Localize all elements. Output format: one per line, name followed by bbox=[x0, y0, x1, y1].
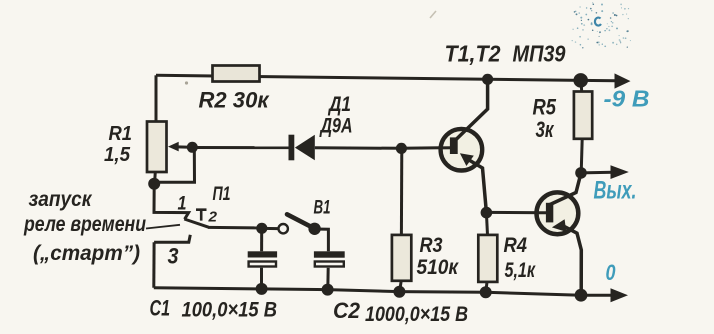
node R1 bottom bbox=[148, 178, 160, 190]
switch P1 contact 3 wire bbox=[154, 235, 190, 242]
svg-text:2: 2 bbox=[207, 209, 217, 226]
switch B1 pivot node bbox=[308, 223, 320, 235]
svg-text:Вых.: Вых. bbox=[594, 177, 637, 205]
resistor R1 (variable) bbox=[147, 122, 167, 173]
svg-text:3: 3 bbox=[168, 243, 179, 268]
svg-text:R3: R3 bbox=[420, 234, 443, 257]
wire T2 base bbox=[486, 211, 546, 214]
svg-text:реле времени: реле времени bbox=[23, 212, 146, 236]
resistor R3 bbox=[392, 235, 411, 281]
node T1 emitter / R4 / T2 base bbox=[481, 207, 493, 219]
svg-text:С1: С1 bbox=[150, 296, 171, 321]
wire diode to node bbox=[315, 146, 402, 150]
svg-text:R1: R1 bbox=[109, 123, 133, 145]
wire C1 top bbox=[260, 228, 263, 251]
arrow 0 rail bbox=[611, 288, 629, 302]
resistor R5 bbox=[574, 92, 592, 139]
node C2 bottom bbox=[322, 284, 334, 296]
wire R5 bottom bbox=[581, 139, 582, 173]
svg-text:П1: П1 bbox=[213, 184, 231, 205]
wire wiper down to R1 bottom bbox=[155, 147, 195, 182]
wire C1 node to B1 bbox=[262, 227, 279, 230]
switch B1 contact circle bbox=[279, 224, 288, 233]
node T2 emitter bottom bbox=[575, 289, 588, 302]
arrow -9V rail bbox=[615, 73, 631, 88]
svg-text:-9 В: -9 В bbox=[604, 86, 650, 112]
wire C1 bottom bbox=[260, 268, 263, 289]
svg-text:1000,0×15 В: 1000,0×15 В bbox=[365, 303, 468, 326]
wiper arrow of R1 bbox=[177, 145, 191, 148]
svg-text:1: 1 bbox=[178, 194, 187, 215]
node R4 bottom bbox=[480, 286, 492, 298]
svg-text:Д1: Д1 bbox=[327, 93, 351, 116]
node T1 collector on rail bbox=[482, 74, 493, 85]
node wiper of R1 bbox=[187, 142, 198, 153]
resistor R2 bbox=[213, 66, 260, 82]
diode D1 bbox=[289, 135, 295, 161]
svg-text:В1: В1 bbox=[314, 197, 331, 218]
wire node down to R3 bbox=[400, 148, 403, 235]
node C1 bottom bbox=[256, 283, 268, 295]
svg-text:3к: 3к bbox=[536, 117, 555, 142]
svg-text:МП39: МП39 bbox=[513, 40, 566, 66]
wire left vertical from rail to R1 bbox=[155, 75, 158, 122]
blue fleck mark bbox=[595, 18, 601, 26]
svg-text:5,1к: 5,1к bbox=[505, 259, 537, 282]
svg-text:(„старт”): („старт”) bbox=[33, 241, 140, 265]
wire C2 bottom bbox=[326, 268, 329, 290]
wire Vykh arrow bbox=[581, 171, 613, 175]
wire top -9V rail bbox=[156, 75, 617, 81]
resistor R4 bbox=[478, 235, 497, 282]
switch P1 arm bbox=[184, 219, 208, 227]
svg-text:100,0×15 В: 100,0×15 В bbox=[182, 299, 278, 322]
svg-text:R2 30к: R2 30к bbox=[199, 88, 271, 113]
svg-text:Т1,Т2: Т1,Т2 bbox=[445, 40, 501, 66]
scan speckle patch top right bbox=[572, 2, 631, 48]
wire R4 bottom stub bbox=[486, 282, 487, 292]
svg-text:R5: R5 bbox=[533, 94, 557, 119]
wire bottom 0 rail bbox=[154, 288, 613, 296]
transistor T2 bbox=[537, 192, 579, 234]
wire B1 to C2 bbox=[315, 229, 329, 251]
wire node to R4 bbox=[486, 213, 487, 235]
capacitor C2 bbox=[314, 251, 345, 257]
switch B1 arm bbox=[287, 214, 314, 228]
capacitor C1 bbox=[248, 251, 277, 257]
stray paper mark bbox=[430, 11, 436, 18]
wire R1 bottom stub bbox=[153, 172, 157, 184]
stray paper mark bbox=[185, 81, 188, 84]
node Vykh bbox=[575, 167, 587, 179]
svg-text:запуск: запуск bbox=[29, 187, 93, 211]
leader line bbox=[146, 225, 180, 229]
svg-text:510к: 510к bbox=[417, 256, 460, 279]
wire wiper to diode bbox=[192, 146, 290, 149]
node C1 top bbox=[256, 223, 267, 234]
svg-text:0: 0 bbox=[606, 260, 617, 285]
node diode / R3 / T1 base bbox=[396, 143, 407, 154]
svg-text:Д9А: Д9А bbox=[319, 114, 353, 137]
switch P1 contact 2 bbox=[196, 210, 207, 221]
wire R3 bottom stub bbox=[400, 281, 402, 292]
svg-text:С2: С2 bbox=[333, 298, 361, 323]
wire left vertical to bottom rail bbox=[152, 242, 155, 288]
transistor T1 bbox=[441, 129, 483, 171]
switch P1 contact 1 wire bbox=[154, 184, 189, 219]
wire R5 top bbox=[580, 80, 584, 91]
svg-text:R4: R4 bbox=[504, 234, 528, 257]
wire T1 base bbox=[401, 146, 450, 150]
node R5 top on rail bbox=[573, 73, 588, 88]
wire arm to C1 bbox=[208, 226, 262, 230]
svg-text:1,5: 1,5 bbox=[104, 144, 131, 166]
node R3 bottom bbox=[393, 286, 405, 298]
